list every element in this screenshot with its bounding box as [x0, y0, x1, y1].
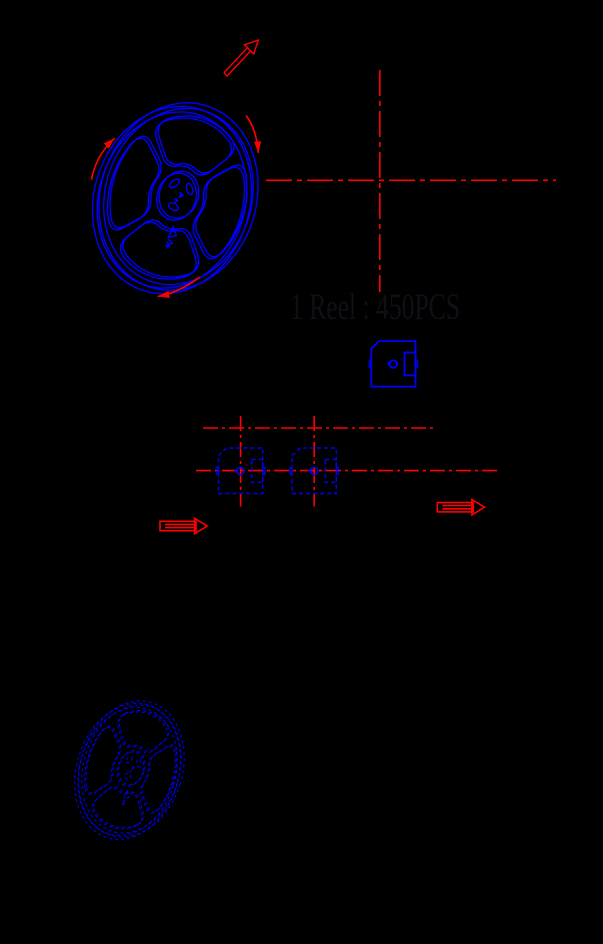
feed direction arrow (left, outline)	[160, 518, 207, 533]
reel (bottom, hidden/dashed)	[59, 688, 201, 853]
tape centerline (top, horizontal)	[203, 427, 433, 429]
rotation arrow (left, curved, clockwise)	[91, 138, 114, 180]
svg-text:1 Reel : 450PCS: 1 Reel : 450PCS	[290, 287, 460, 328]
unreeling direction arrow (straight, NE, outline)	[224, 40, 258, 76]
rotation arrow (right, curved, clockwise)	[246, 116, 258, 154]
reel (top, solid)	[70, 83, 281, 314]
crosshair centerline (vertical)	[379, 70, 381, 292]
rotation arrow (bottom, curved, clockwise)	[158, 277, 200, 296]
crosshair centerline (horizontal)	[266, 179, 556, 181]
pocket centerline (vertical 2)	[313, 416, 315, 507]
component in tape pocket 2 (hidden, dashed)	[290, 448, 339, 494]
component in tape pocket 1 (hidden, dashed)	[216, 448, 265, 494]
feed direction arrow (right, outline)	[437, 500, 484, 515]
component (single, top view)	[369, 341, 418, 387]
pocket centerline (vertical 1)	[240, 416, 242, 507]
tape centerline (main horizontal)	[196, 470, 500, 472]
